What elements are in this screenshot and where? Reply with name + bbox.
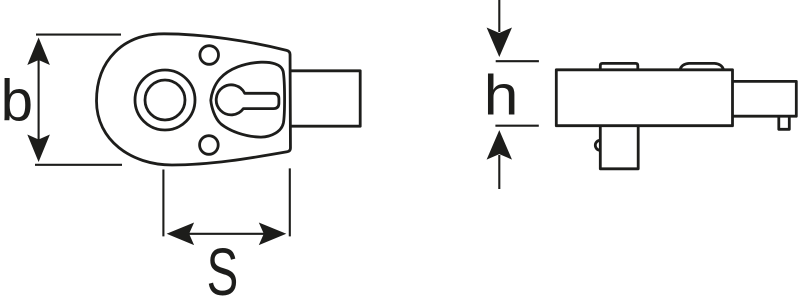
- dimension S: left arrowhead: [167, 223, 195, 246]
- dimension h: bottom extension line: [495, 125, 538, 127]
- dimension S: left extension line: [162, 170, 164, 237]
- detent ball on lower square: [595, 140, 605, 150]
- dimension b: arrow shaft: [38, 50, 40, 150]
- dimension b: bottom extension line: [35, 164, 122, 166]
- lower square drive (side view, open top): [600, 126, 638, 169]
- svg-text:S: S: [207, 236, 239, 306]
- dimension h: bottom arrow shaft: [498, 155, 500, 189]
- dimension S: right arrowhead: [259, 223, 287, 246]
- dimension h: top extension line: [496, 60, 539, 62]
- lever pocket (teardrop): [211, 62, 285, 137]
- detent notch under tang (open top): [779, 116, 790, 129]
- dimension b: top extension line: [36, 34, 121, 36]
- pin hole bottom: [200, 136, 219, 155]
- svg-text:h: h: [484, 63, 519, 127]
- top bump left (open bottom): [600, 63, 638, 69]
- top bump right (open bottom): [680, 63, 724, 69]
- head outline: [97, 34, 291, 165]
- dimension b: top arrowhead: [27, 38, 50, 66]
- dimension S: arrow shaft: [180, 233, 272, 235]
- pin hole top: [200, 46, 219, 65]
- drive ring inner circle: [145, 80, 185, 120]
- dimension h: bottom arrowhead (up): [487, 130, 512, 160]
- square drive tang (top view): [290, 71, 360, 126]
- label S: [207, 236, 239, 306]
- keyhole lever: [216, 85, 279, 115]
- side body rectangle: [556, 70, 732, 126]
- dimension h: top arrowhead (down): [487, 28, 512, 58]
- drive ring outer circle: [135, 70, 195, 130]
- dimension S: right extension line: [289, 168, 291, 236]
- label h: [484, 63, 519, 127]
- svg-text:b: b: [1, 69, 33, 134]
- dimension b: bottom arrowhead: [27, 135, 50, 163]
- square tang (side view, open left): [733, 81, 797, 116]
- dimension h: top arrow shaft: [498, 0, 500, 32]
